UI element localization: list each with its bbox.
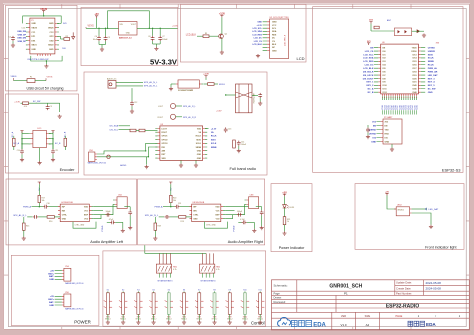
svg-text:IO0: IO0 bbox=[383, 51, 386, 53]
title block table bbox=[272, 280, 470, 330]
IC P1 USB type-C connector bbox=[30, 18, 55, 54]
wire emitter to ground bbox=[221, 39, 223, 51]
wire CN1 to U3 bbox=[97, 151, 146, 154]
svg-text:K9: K9 bbox=[229, 290, 231, 292]
connector CN4 bbox=[64, 268, 71, 281]
svg-text:+5V: +5V bbox=[385, 192, 389, 194]
svg-text:KEY_1: KEY_1 bbox=[367, 82, 375, 84]
svg-text:GND: GND bbox=[428, 92, 433, 94]
svg-text:LCD_DC: LCD_DC bbox=[365, 65, 374, 67]
resistor R16 bbox=[38, 216, 47, 218]
svg-text:BLK: BLK bbox=[272, 44, 277, 46]
svg-text:AUDIO-3.5: AUDIO-3.5 bbox=[107, 77, 116, 80]
svg-text:VBUS: VBUS bbox=[11, 76, 17, 78]
svg-text:LCD_SCL: LCD_SCL bbox=[363, 54, 374, 56]
wires jack to labels bbox=[116, 81, 143, 83]
U8 right pins bbox=[221, 207, 223, 219]
svg-text:EC_B: EC_B bbox=[368, 92, 374, 94]
svg-text:IO7: IO7 bbox=[383, 75, 386, 77]
svg-text:PWM_AL: PWM_AL bbox=[428, 67, 438, 70]
svg-text:USB-TYPE-C-SMD-16P: USB-TYPE-C-SMD-16P bbox=[27, 59, 49, 61]
svg-text:4.7k: 4.7k bbox=[216, 269, 219, 271]
svg-text:LCD_CS: LCD_CS bbox=[254, 41, 263, 43]
wire bus join U3 left bbox=[146, 143, 158, 151]
svg-text:Part Number:: Part Number: bbox=[396, 292, 412, 296]
svg-text:VDD: VDD bbox=[84, 207, 89, 209]
capacitor C9 switch bbox=[46, 105, 50, 110]
P1 shield pins bbox=[38, 54, 51, 56]
wire U7 input ground bbox=[171, 83, 174, 85]
svg-text:R16: R16 bbox=[49, 221, 52, 223]
svg-text:Drawn: Drawn bbox=[274, 296, 282, 300]
resistor R12 right bbox=[233, 140, 236, 148]
speaker connector CN3 bbox=[249, 197, 259, 209]
svg-text:GND: GND bbox=[197, 158, 202, 160]
svg-text:VCC: VCC bbox=[272, 25, 277, 27]
capacitor bootstrap Left bbox=[110, 220, 115, 224]
wire input row1 Left bbox=[32, 206, 44, 208]
ground U2 bbox=[256, 54, 260, 58]
svg-text:GND: GND bbox=[31, 49, 36, 51]
svg-text:PAGE: PAGE bbox=[396, 315, 403, 318]
svg-text:RXD0: RXD0 bbox=[411, 51, 416, 53]
svg-text:LCD_SDA: LCD_SDA bbox=[363, 57, 374, 60]
svg-text:LCD_SCL: LCD_SCL bbox=[253, 28, 263, 30]
svg-text:VOUT: VOUT bbox=[131, 24, 137, 26]
diode D2 bbox=[417, 29, 420, 33]
capacitor bootstrap Right bbox=[242, 220, 247, 224]
svg-text:SDIO: SDIO bbox=[196, 139, 201, 141]
capacitor C5 100nF bbox=[105, 28, 107, 36]
resistor R9 bbox=[208, 83, 215, 86]
svg-text:Schematic:: Schematic: bbox=[274, 284, 288, 288]
svg-text:K5: K5 bbox=[168, 290, 170, 292]
wire LOUT bbox=[176, 105, 182, 107]
svg-text:GND: GND bbox=[49, 49, 54, 51]
power flag amp Right bbox=[169, 182, 172, 184]
P1 right pins bbox=[55, 23, 57, 49]
svg-text:PWM_A: PWM_A bbox=[154, 206, 163, 209]
svg-text:LCD_RES: LCD_RES bbox=[252, 34, 262, 36]
svg-text:GND: GND bbox=[62, 219, 67, 221]
regulator U5 AMS1117-3.3 bbox=[119, 22, 138, 36]
svg-text:Audio Amplifier Right: Audio Amplifier Right bbox=[228, 240, 264, 244]
svg-text:I2S_LRCK: I2S_LRCK bbox=[363, 75, 374, 77]
ground EC_A cap bbox=[21, 154, 23, 158]
svg-text:BAT-: BAT- bbox=[49, 275, 54, 278]
wire BK1 left bbox=[226, 94, 236, 96]
capacitor C8 header bbox=[366, 127, 370, 132]
wires RN1 bottom bbox=[160, 273, 171, 278]
svg-text:BAT+: BAT+ bbox=[48, 272, 54, 275]
ground SW10 bbox=[243, 321, 247, 325]
svg-text:K7: K7 bbox=[198, 290, 200, 292]
U7 pins bbox=[176, 83, 178, 85]
svg-text:CTRL: CTRL bbox=[193, 215, 199, 217]
CN1 pins bbox=[95, 154, 97, 160]
resistor R7 bbox=[13, 138, 16, 146]
wire encoder switch bbox=[21, 102, 23, 104]
power flag +3.3V LCD backlight bbox=[219, 13, 226, 17]
svg-text:I2S_BCLK: I2S_BCLK bbox=[363, 71, 374, 73]
ground encoder common bbox=[38, 161, 42, 165]
svg-text:SPK_AL_N_L: SPK_AL_N_L bbox=[13, 214, 27, 217]
svg-text:EC_SW: EC_SW bbox=[33, 101, 40, 103]
svg-text:GPIO3: GPIO3 bbox=[162, 143, 168, 145]
capacitor C1 bbox=[11, 36, 15, 41]
svg-text:K6: K6 bbox=[183, 290, 185, 292]
svg-text:EN: EN bbox=[370, 47, 373, 49]
wire CC pulldown right bbox=[57, 22, 61, 24]
U8 left pins bbox=[190, 207, 192, 219]
wire EC A side bbox=[22, 133, 29, 135]
capacitor C15 tune bbox=[258, 93, 262, 98]
svg-text:Power Indicator: Power Indicator bbox=[279, 246, 305, 250]
wire pullup node Right bbox=[170, 203, 172, 207]
connector CN5 bbox=[64, 294, 71, 307]
ferrite bead FB1 bbox=[107, 155, 110, 158]
wire cap to IC Right bbox=[180, 206, 192, 208]
svg-text:DC: DC bbox=[272, 38, 275, 40]
svg-text:SCLK: SCLK bbox=[211, 143, 217, 145]
svg-text:IO12: IO12 bbox=[383, 92, 387, 94]
svg-text:CN2: CN2 bbox=[118, 195, 122, 197]
amplifier U4 NS4150B bbox=[60, 204, 89, 222]
svg-text:GPIO1: GPIO1 bbox=[162, 136, 169, 138]
resistor R10 bbox=[130, 129, 136, 132]
svg-text:LED_DAT: LED_DAT bbox=[428, 74, 439, 77]
svg-text:U0RXD: U0RXD bbox=[428, 51, 436, 53]
svg-text:4.7k: 4.7k bbox=[173, 269, 176, 271]
svg-text:LOUT: LOUT bbox=[158, 106, 164, 108]
wire shield rail to ground bbox=[31, 56, 62, 61]
ground C15 bbox=[259, 98, 261, 101]
svg-text:LCD-TFT1.8: LCD-TFT1.8 bbox=[285, 34, 287, 46]
svg-text:Front indicator light: Front indicator light bbox=[425, 245, 456, 249]
svg-text:Encoder: Encoder bbox=[60, 167, 76, 172]
svg-text:C5: C5 bbox=[108, 37, 110, 39]
svg-text:+3.3V: +3.3V bbox=[219, 13, 226, 15]
svg-text:GND: GND bbox=[126, 33, 131, 35]
resistor R6 4.7k bbox=[23, 102, 29, 105]
ground bootstrap Right bbox=[247, 221, 255, 223]
svg-text:LCD_RES: LCD_RES bbox=[363, 61, 374, 63]
svg-text:I2S_SCL: I2S_SCL bbox=[110, 129, 119, 131]
power marks encoder bbox=[20, 131, 23, 133]
U6 left pins bbox=[378, 48, 380, 93]
svg-text:KEY4: KEY4 bbox=[168, 281, 172, 283]
ground input Left bbox=[23, 230, 25, 236]
svg-text:LCD_BLK: LCD_BLK bbox=[363, 68, 374, 70]
wires RN1 top bbox=[160, 253, 171, 264]
capacitor out2 Right bbox=[260, 210, 264, 215]
svg-text:PGND: PGND bbox=[234, 225, 236, 231]
svg-text:VO2: VO2 bbox=[84, 219, 88, 221]
wire to speaker Right bbox=[242, 204, 244, 214]
svg-text:SENB: SENB bbox=[196, 147, 202, 149]
svg-text:SDA: SDA bbox=[272, 30, 277, 33]
svg-text:CN5: CN5 bbox=[65, 292, 69, 294]
capacitor C19 10uF bbox=[175, 205, 180, 209]
wire bottom fanout bbox=[382, 110, 416, 114]
svg-text:+3.3V: +3.3V bbox=[211, 128, 217, 130]
svg-text:GND: GND bbox=[197, 151, 202, 153]
fuse F1 self-recovery bbox=[27, 79, 35, 83]
svg-text:IO20: IO20 bbox=[412, 78, 416, 80]
svg-text:+5V: +5V bbox=[50, 296, 54, 298]
svg-text:GND: GND bbox=[49, 279, 54, 281]
svg-text:LED1: LED1 bbox=[290, 207, 295, 209]
svg-text:I2S_DOUT: I2S_DOUT bbox=[363, 78, 374, 80]
wire pullup node Left bbox=[38, 203, 40, 207]
ground USB shield bbox=[44, 64, 48, 68]
wire collector bbox=[221, 17, 223, 34]
svg-text:USB_DP: USB_DP bbox=[18, 41, 27, 43]
svg-text:+3.3V: +3.3V bbox=[216, 111, 222, 113]
svg-text:EDA: EDA bbox=[313, 323, 326, 329]
svg-text:IO17: IO17 bbox=[412, 68, 416, 70]
wire caps to ground bbox=[98, 41, 100, 44]
svg-text:GND: GND bbox=[197, 154, 202, 156]
svg-text:XC6206P332MR: XC6206P332MR bbox=[178, 90, 194, 92]
ground radio input bbox=[146, 157, 148, 165]
svg-text:+5V: +5V bbox=[282, 191, 287, 194]
wire fuse output bbox=[35, 80, 46, 82]
svg-text:AGND: AGND bbox=[120, 164, 127, 167]
ground SW6 bbox=[182, 321, 186, 325]
svg-text:VER: VER bbox=[341, 315, 346, 318]
block Control bbox=[103, 251, 266, 326]
wire to MCLK bbox=[214, 83, 218, 85]
svg-text:Page: Page bbox=[274, 292, 281, 296]
wire base bbox=[209, 35, 218, 37]
svg-text:KEY_3: KEY_3 bbox=[428, 78, 436, 80]
ground C12 bbox=[131, 106, 133, 109]
ground indicator bbox=[282, 231, 286, 235]
svg-text:AMS1117-3.3: AMS1117-3.3 bbox=[119, 36, 132, 39]
svg-text:I2S_SDA: I2S_SDA bbox=[109, 125, 118, 128]
U6 bottom pins bbox=[382, 94, 416, 96]
svg-text:KEY_2: KEY_2 bbox=[367, 85, 375, 87]
EC1 left pins bbox=[31, 134, 33, 144]
resistor R11 bbox=[139, 129, 145, 132]
block Full band radio bbox=[84, 72, 267, 175]
svg-text:PWM_AR: PWM_AR bbox=[428, 70, 438, 73]
wire control feed bbox=[144, 251, 146, 254]
resistor R19 bbox=[170, 216, 179, 218]
resistor R21 1k bbox=[283, 217, 286, 225]
logo JLC EDA cloud bbox=[278, 317, 291, 326]
ground input Right bbox=[154, 230, 156, 236]
svg-text:RCLK: RCLK bbox=[211, 136, 217, 138]
resistor R5 antenna bbox=[374, 26, 379, 29]
svg-text:WAFER-SMD_4P-P2.00: WAFER-SMD_4P-P2.00 bbox=[65, 282, 83, 285]
ground U3 bottom bbox=[180, 160, 182, 163]
svg-text:U8 NS4150B: U8 NS4150B bbox=[193, 202, 205, 204]
wire +5V to LED2 bbox=[387, 196, 396, 210]
svg-text:ESP32-RADIO: ESP32-RADIO bbox=[386, 303, 419, 309]
ground encoder switch bbox=[58, 115, 62, 119]
svg-text:LCD: LCD bbox=[296, 56, 304, 61]
CN4 pins bbox=[62, 271, 64, 280]
svg-text:SPK_AL_R_L: SPK_AL_R_L bbox=[183, 105, 197, 108]
svg-text:C6: C6 bbox=[148, 36, 150, 38]
svg-text:V1.0: V1.0 bbox=[341, 323, 347, 327]
svg-text:POWER: POWER bbox=[74, 319, 91, 324]
svg-text:GND: GND bbox=[49, 305, 54, 307]
svg-text:USB_DM: USB_DM bbox=[17, 31, 26, 33]
wires CN4 bbox=[55, 271, 62, 280]
svg-text:IO2: IO2 bbox=[383, 58, 386, 60]
svg-text:IO10: IO10 bbox=[383, 85, 387, 87]
svg-text:GNR001_SCH: GNR001_SCH bbox=[329, 284, 362, 290]
wire input row2 Right bbox=[159, 216, 164, 218]
LED1 bbox=[283, 205, 295, 209]
svg-text:MCLK: MCLK bbox=[219, 84, 226, 86]
wire feedback loop Right bbox=[205, 222, 228, 229]
svg-text:P1: P1 bbox=[344, 292, 348, 296]
resistor network RN1 bbox=[156, 264, 171, 273]
resistor R2 5.1k bbox=[64, 38, 70, 41]
svg-text:10k: 10k bbox=[42, 200, 45, 202]
capacitor C16 10uF bbox=[43, 205, 48, 209]
svg-text:SPK_AL_N_L: SPK_AL_N_L bbox=[144, 81, 158, 84]
wire fuse input bbox=[13, 78, 15, 81]
wire feedback loop Left bbox=[73, 222, 96, 229]
power flag 3V3 antenna bbox=[369, 20, 374, 24]
wire cap to IC Left bbox=[48, 206, 60, 208]
svg-text:TXD0: TXD0 bbox=[412, 47, 417, 49]
power flag VBUS bbox=[40, 8, 47, 13]
svg-text:RES: RES bbox=[272, 34, 277, 36]
svg-text:GND: GND bbox=[257, 22, 262, 24]
wire input row1 Right bbox=[163, 206, 175, 208]
svg-text:2024-05-08: 2024-05-08 bbox=[426, 281, 442, 285]
svg-text:IO13: IO13 bbox=[412, 54, 416, 56]
svg-text:ESP32-S3: ESP32-S3 bbox=[442, 167, 461, 172]
svg-text:IO16: IO16 bbox=[412, 65, 416, 67]
svg-text:C11: C11 bbox=[55, 150, 58, 152]
svg-text:U2 1.8''LCD(ST7735): U2 1.8''LCD(ST7735) bbox=[270, 17, 289, 19]
U3 right pins bbox=[203, 129, 205, 159]
ground EC_B cap bbox=[52, 154, 54, 158]
svg-text:EC_A: EC_A bbox=[14, 142, 20, 145]
U2 pins bbox=[267, 22, 270, 51]
svg-text:K4: K4 bbox=[152, 290, 154, 292]
ground C14 bbox=[238, 146, 240, 149]
svg-text:IO6: IO6 bbox=[383, 71, 386, 73]
svg-text:GND: GND bbox=[272, 50, 277, 52]
ground C8 bbox=[366, 135, 370, 139]
EC1 right pins bbox=[46, 134, 48, 144]
svg-text:+3.3V: +3.3V bbox=[14, 101, 20, 103]
power flag +3.3V radio LDO bbox=[203, 74, 209, 78]
svg-text:R18: R18 bbox=[158, 226, 161, 228]
resistor R8 bbox=[64, 138, 67, 146]
svg-text:LCD_CS: LCD_CS bbox=[365, 51, 374, 53]
svg-text:GND: GND bbox=[385, 141, 390, 143]
svg-text:U4 NS4150B: U4 NS4150B bbox=[61, 202, 73, 204]
svg-text:NC: NC bbox=[272, 47, 275, 49]
svg-text:K11: K11 bbox=[259, 290, 262, 292]
ground SW1 bbox=[106, 321, 110, 325]
svg-text:100nF: 100nF bbox=[237, 211, 243, 213]
svg-text:R15: R15 bbox=[26, 226, 29, 228]
wire data out bbox=[412, 208, 427, 210]
svg-text:SIZE: SIZE bbox=[365, 315, 371, 318]
svg-text:CN3: CN3 bbox=[250, 195, 254, 197]
resistor R18 bias bbox=[154, 223, 157, 230]
svg-text:Create Date:: Create Date: bbox=[396, 286, 411, 290]
svg-text:P2 UART: P2 UART bbox=[384, 116, 393, 119]
ESD diode array D1 bbox=[394, 28, 411, 36]
U4 left pins bbox=[58, 207, 60, 219]
resistor R15 bias bbox=[23, 223, 26, 230]
svg-text:C10: C10 bbox=[17, 150, 20, 152]
MCU U6 ESP32-S3 module bbox=[381, 44, 419, 94]
ground left of P1 bbox=[12, 41, 14, 43]
svg-text:LCD_BLK: LCD_BLK bbox=[186, 34, 197, 36]
wire EC B side bbox=[49, 133, 53, 135]
svg-text:FMI: FMI bbox=[162, 147, 166, 149]
CN5 pins bbox=[62, 296, 64, 305]
svg-text:100nF: 100nF bbox=[241, 144, 247, 146]
power flag amp Left bbox=[38, 182, 41, 184]
power flag module left bbox=[367, 41, 371, 45]
U3 left pins bbox=[158, 129, 160, 159]
svg-text:SDIO: SDIO bbox=[428, 54, 434, 56]
resistor R17 10k bbox=[38, 184, 40, 195]
speaker connector CN2 bbox=[117, 197, 127, 209]
pin numbers U6 bottom bbox=[382, 96, 417, 98]
rotary encoder EC1 bbox=[33, 130, 46, 147]
capacitor C7 100nF output bbox=[159, 28, 161, 36]
svg-text:LOUT: LOUT bbox=[162, 128, 168, 130]
power flag +5V ws2812 bbox=[385, 192, 389, 196]
svg-text:VSYS: VSYS bbox=[47, 76, 53, 78]
svg-text:LCD_BLK: LCD_BLK bbox=[252, 44, 262, 46]
svg-text:1k: 1k bbox=[287, 221, 289, 223]
svg-text:SEN: SEN bbox=[162, 158, 167, 160]
block Power Indicator bbox=[271, 184, 312, 252]
capacitor C10 EC_A bbox=[21, 139, 23, 149]
wire to base resistor bbox=[197, 35, 203, 37]
svg-text:C12: C12 bbox=[134, 102, 137, 104]
svg-text:SBU2: SBU2 bbox=[48, 45, 54, 47]
svg-text:LED_DAT: LED_DAT bbox=[429, 208, 439, 211]
svg-text:WAFER-SMD_4P-P2.00: WAFER-SMD_4P-P2.00 bbox=[65, 308, 83, 311]
block POWER bbox=[11, 255, 99, 325]
block ESP32-S3 bbox=[313, 7, 463, 173]
svg-text:LCD_DC: LCD_DC bbox=[254, 38, 263, 40]
svg-text:SDIO: SDIO bbox=[211, 139, 216, 141]
svg-text:VDD: VDD bbox=[215, 207, 220, 209]
svg-text:SBU1: SBU1 bbox=[31, 45, 37, 47]
capacitor C6 10uF output bbox=[152, 28, 154, 36]
wire R2 bbox=[57, 35, 60, 37]
svg-text:+5V: +5V bbox=[50, 270, 54, 272]
U6 right pins bbox=[418, 48, 420, 93]
capacitor output 100nF Left bbox=[105, 213, 110, 217]
line out jack R bbox=[158, 114, 176, 119]
capacitor C12 electrolytic bbox=[131, 88, 133, 101]
svg-text:P1: P1 bbox=[31, 20, 33, 22]
svg-text:C19: C19 bbox=[178, 203, 181, 205]
wire LED2 ground bbox=[412, 213, 431, 225]
svg-text:EC_B: EC_B bbox=[55, 143, 61, 145]
ground SW8 bbox=[212, 321, 216, 325]
wire +5V tap bbox=[96, 18, 98, 21]
